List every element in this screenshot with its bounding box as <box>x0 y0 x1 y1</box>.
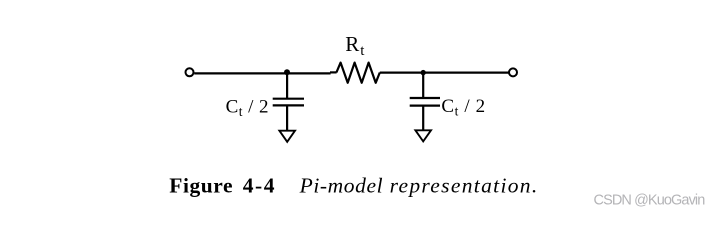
ground (right, open triangle) <box>415 130 431 141</box>
wire capacitor C1 to ground <box>286 105 288 130</box>
svg-text:Ct / 2: Ct / 2 <box>441 96 485 118</box>
node A (left junction dot) <box>284 69 290 75</box>
ground (left, open triangle) <box>279 131 295 142</box>
svg-text:CSDN @KuoGavin: CSDN @KuoGavin <box>594 192 706 208</box>
svg-text:Ct / 2: Ct / 2 <box>226 97 269 119</box>
capacitor C1 (C_t/2 left, plates) <box>273 99 304 106</box>
capacitor C2 (C_t/2 right, plates) <box>410 98 440 106</box>
svg-text:Figure: Figure <box>169 174 233 198</box>
resistor R_t (zigzag) <box>336 63 379 83</box>
terminal T2 (right open circle) <box>509 68 517 76</box>
wire left segment (T1 to node A and on to resistor) <box>194 72 330 74</box>
wire node B to capacitor C2 <box>422 73 424 98</box>
wire capacitor C2 to ground <box>422 106 424 131</box>
wire jog before resistor <box>330 71 337 73</box>
wire right segment (resistor to node B to T2) <box>380 71 509 73</box>
wire node A to capacitor C1 <box>286 73 288 98</box>
svg-text:Rt: Rt <box>345 32 365 59</box>
svg-text:representation.: representation. <box>390 174 539 198</box>
node B (right junction dot) <box>421 70 426 75</box>
svg-text:Pi-model: Pi-model <box>299 174 384 198</box>
svg-text:4-4: 4-4 <box>243 174 276 198</box>
terminal T1 (left open circle) <box>186 68 194 76</box>
